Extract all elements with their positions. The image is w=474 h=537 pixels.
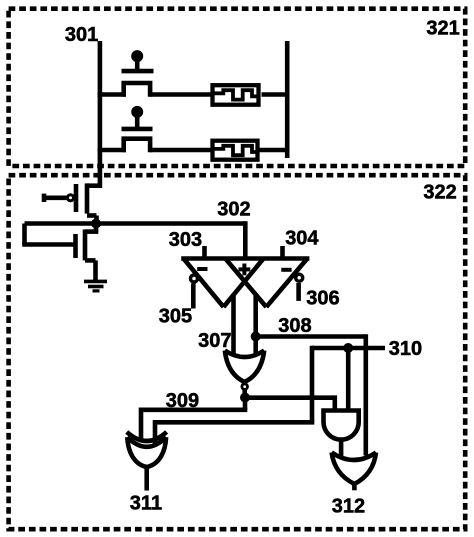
svg-text:303: 303 [169,229,202,251]
wire 308 [256,334,366,455]
node 309 junction dot [240,393,250,403]
svg-text:308: 308 [278,315,311,337]
svg-text:301: 301 [65,24,98,46]
svg-text:310: 310 [389,338,422,360]
stub 306 [296,283,301,301]
wire: 310 branch to XOR 311 [155,346,314,445]
U2 inverting bubble (306) [296,274,303,281]
wire: OR 312 output stub [352,483,357,490]
svg-text:306: 306 [306,288,339,310]
M1 gate lead end tick [42,194,47,202]
wire 309 [141,398,247,442]
wire: word line column 301 [98,41,103,188]
wire: U2 output drop [253,294,258,356]
svg-text:305: 305 [159,306,192,328]
wire: right bit line [285,41,290,158]
wire: U1 output drop [231,294,236,356]
dashed box 321 [9,9,466,166]
memristor M1 [213,85,259,105]
transistor Q1 [122,58,154,97]
svg-text:307: 307 [198,330,231,352]
stub input 304 [280,246,285,260]
NOR 307 output bubble [242,384,248,390]
wire: 310 to AND gate [346,348,351,412]
U2 minus sign [281,268,291,272]
wire row2 left [98,148,126,153]
U1 inverting bubble (305) [191,275,198,282]
NOR gate 307 [225,351,264,383]
node 302 junction dot [91,219,101,229]
wire: M1 gate lead [44,196,67,201]
OR gate 312 [332,453,376,485]
transistor M1 (PMOS) [76,183,102,223]
comparator shared top edge [181,256,309,261]
AND gate U3 [324,411,359,440]
ground [84,281,107,291]
dashed box 322 [9,175,466,529]
transistor M1 gate bubble [68,195,74,201]
wire row1 left [98,92,126,97]
wire row1 middle [150,92,214,97]
wire: AND output to OR 312 [339,439,344,459]
transistor Q1 gate dot [131,50,143,62]
wire row2 right [259,148,290,153]
wire: XOR 311 output stub [144,466,149,491]
U1 minus sign [197,267,207,271]
svg-text:302: 302 [217,199,250,221]
comparator U2 (304) [225,259,307,308]
svg-text:312: 312 [332,495,365,517]
svg-text:321: 321 [426,17,459,39]
wire row1 right [262,92,290,97]
node 308 junction dot [251,332,261,342]
svg-text:322: 322 [423,181,456,203]
transistor Q2 gate dot [131,106,143,118]
wire: diode loop to M2 gate [22,224,73,245]
wire row2 middle [150,148,214,153]
stub input 303 [202,246,207,260]
stub 305 [191,284,196,309]
comparator U1 (303) [184,259,264,308]
wire: 307 output to AND gate [245,395,335,412]
U1 plus sign [239,264,251,276]
XOR gate 311 [127,432,167,467]
memristor M2 [213,141,258,160]
wire: bubble to node [242,390,247,398]
svg-text:311: 311 [130,493,162,515]
wire 310 [312,346,385,351]
transistor M2 (NMOS) [76,224,99,282]
node 310 junction dot [343,343,353,353]
svg-text:304: 304 [285,228,319,250]
transistor Q2 [122,114,153,152]
wire 302 [25,221,246,260]
